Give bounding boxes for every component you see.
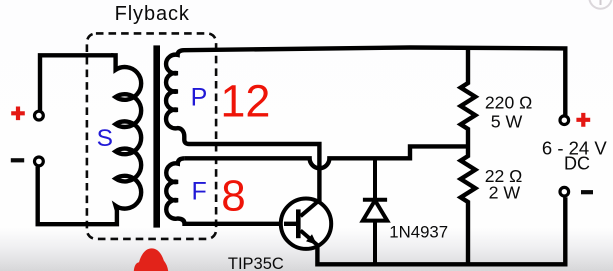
svg-text:12: 12 [220,75,270,126]
svg-text:S: S [97,125,113,152]
svg-text:DC: DC [564,154,590,174]
svg-text:Flyback: Flyback [115,3,190,25]
svg-text:220 Ω: 220 Ω [485,92,532,112]
svg-text:8: 8 [221,171,245,220]
svg-text:P: P [191,84,208,112]
svg-text:F: F [192,177,207,205]
svg-text:2 W: 2 W [489,182,521,202]
svg-text:TIP35C: TIP35C [228,255,284,271]
svg-text:5 W: 5 W [491,111,523,131]
svg-text:1N4937: 1N4937 [389,222,448,241]
